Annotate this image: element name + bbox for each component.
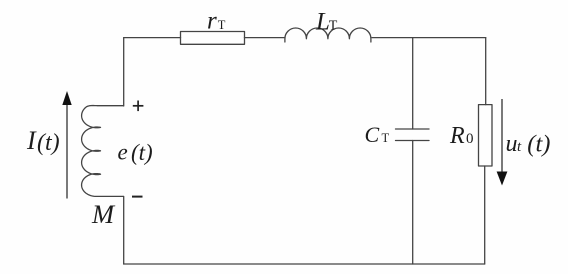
svg-text:T: T: [218, 18, 226, 32]
svg-text:C: C: [365, 122, 380, 147]
svg-text:M: M: [91, 199, 116, 229]
svg-text:(t): (t): [527, 131, 550, 158]
wire bottom horizontal: [124, 263, 485, 265]
resistor R0: [479, 105, 493, 166]
polarity minus: [132, 196, 143, 198]
svg-text:T: T: [329, 18, 338, 33]
svg-text:T: T: [382, 131, 390, 145]
wire right vertical (R0 bottom to bottom wire): [484, 166, 486, 264]
svg-text:(t): (t): [131, 140, 153, 165]
wire capacitor branch lower: [412, 141, 414, 265]
current arrow I(t): [62, 91, 71, 199]
svg-text:r: r: [207, 8, 217, 35]
inductor LT: [285, 28, 371, 42]
wire top-left horizontal (coil top to resistor): [124, 37, 181, 39]
svg-text:e: e: [118, 140, 128, 165]
resistor rT: [181, 32, 245, 45]
svg-text:0: 0: [466, 131, 474, 147]
voltage arrow ut(t): [497, 99, 508, 186]
svg-text:L: L: [315, 8, 330, 35]
svg-text:R: R: [449, 123, 465, 149]
wire right vertical (top corner to R0): [485, 38, 487, 105]
svg-text:u: u: [506, 131, 518, 157]
wire capacitor branch upper: [412, 38, 414, 129]
svg-text:I: I: [26, 126, 37, 155]
wire left vertical (bottom): [123, 197, 125, 265]
wire left vertical (top): [123, 38, 125, 106]
wire top-right (inductor to right corner): [372, 37, 486, 39]
polarity plus: [133, 101, 144, 112]
capacitor CT top plate: [396, 128, 430, 130]
svg-text:(t): (t): [37, 130, 60, 156]
capacitor CT bottom plate: [396, 140, 430, 142]
inductor M (source coil): [82, 106, 124, 197]
wire top (resistor to inductor): [245, 37, 285, 39]
